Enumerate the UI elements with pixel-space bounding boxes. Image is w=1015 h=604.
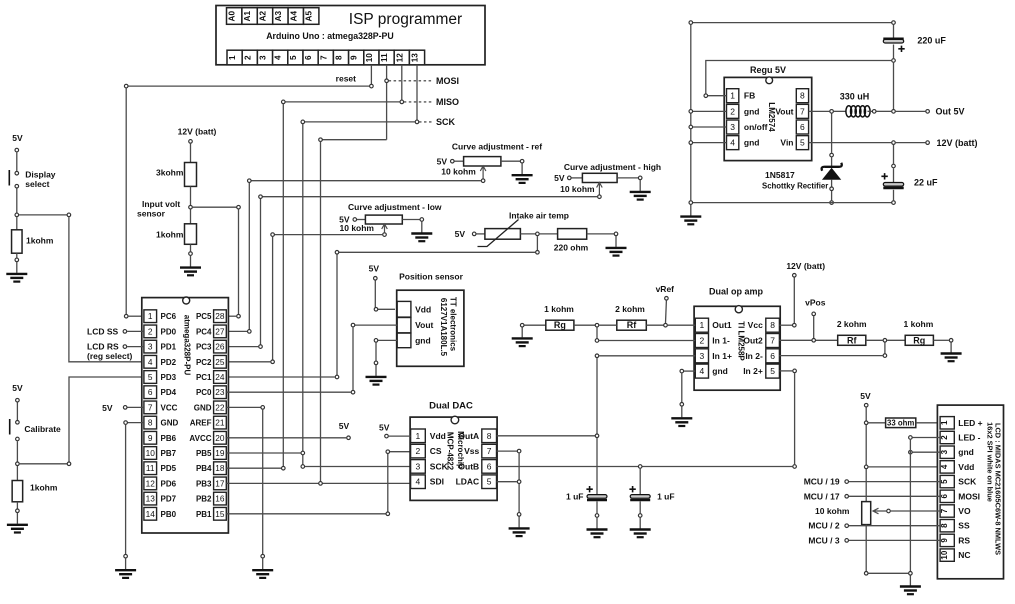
LCD contrast wiper arrow <box>873 508 886 514</box>
svg-text:MOSI: MOSI <box>436 76 459 86</box>
wire 5V to pin 7 VCC <box>127 406 143 408</box>
resistor 3kohm <box>185 163 197 187</box>
svg-text:10: 10 <box>940 550 949 559</box>
svg-text:5V: 5V <box>455 229 466 239</box>
svg-text:14: 14 <box>146 509 156 519</box>
node diode cathode <box>830 153 834 157</box>
wire intake junction down <box>536 236 538 252</box>
svg-text:1 kohm: 1 kohm <box>544 304 574 314</box>
svg-text:Rg: Rg <box>554 320 566 330</box>
svg-text:LED -: LED - <box>958 433 980 443</box>
wire pin 15 PB1 to DAC CS <box>226 513 387 515</box>
svg-text:10 kohm: 10 kohm <box>815 506 850 516</box>
svg-text:Vin: Vin <box>780 138 793 148</box>
svg-text:Schottky Rectifier: Schottky Rectifier <box>762 182 828 191</box>
svg-text:LDAC: LDAC <box>456 477 480 487</box>
U3 pin 2 In 1- <box>695 334 730 348</box>
svg-text:5: 5 <box>487 477 492 487</box>
svg-text:Position sensor: Position sensor <box>399 272 463 282</box>
ISP header pin 7 <box>318 50 333 65</box>
svg-text:220 uF: 220 uF <box>917 36 946 46</box>
node left rail pin2 <box>689 110 693 114</box>
wire into op amp In2- <box>779 355 882 357</box>
svg-text:RS: RS <box>958 535 970 545</box>
wire pin 18 PB4 to MISO net <box>226 467 281 469</box>
svg-text:1: 1 <box>148 311 153 321</box>
wire SCK into DAC pin 3 <box>305 466 411 468</box>
svg-text:on/off: on/off <box>744 122 768 132</box>
node 220uF bottom junction <box>892 59 896 63</box>
wire OutA node down to C3 <box>596 438 598 494</box>
svg-text:5V: 5V <box>339 421 350 431</box>
svg-text:5: 5 <box>770 366 775 376</box>
node MISO corner <box>282 100 286 104</box>
svg-text:MCU / 2: MCU / 2 <box>808 521 839 531</box>
svg-text:PD1: PD1 <box>161 343 177 352</box>
terminal 5V display-select <box>15 148 19 152</box>
svg-text:15: 15 <box>215 509 225 519</box>
svg-text:5V: 5V <box>437 157 448 167</box>
wire Vout to inductor <box>834 110 846 112</box>
wire low wiper to PC2 riser <box>273 234 383 236</box>
wire 220uF node up to cap <box>893 45 895 59</box>
wire reset vertical down to ATmega pin 1 <box>125 88 127 316</box>
node intake corner <box>536 251 540 255</box>
svg-text:PD0: PD0 <box>161 327 177 336</box>
ISP header pin 11 <box>379 50 394 65</box>
wire CS into DAC pin 2 <box>390 451 411 453</box>
node reset left corner <box>124 84 128 88</box>
wire 5V to calibrate switch <box>16 402 18 420</box>
capacitor C2 22 uF <box>881 173 903 188</box>
wire Vss/LDAC down to ground <box>518 484 520 512</box>
svg-text:20: 20 <box>215 433 225 443</box>
wire Vin junction down to C2 <box>893 145 895 164</box>
node SCK bottom corner <box>301 465 305 469</box>
wire LCD pin 2 LED- out <box>913 437 941 439</box>
svg-text:Rg: Rg <box>913 335 925 345</box>
svg-text:SCK: SCK <box>430 461 449 471</box>
svg-text:12V (batt): 12V (batt) <box>786 261 825 271</box>
U1 pin 15 PB1 <box>196 507 226 520</box>
svg-text:10: 10 <box>365 53 374 63</box>
svg-text:PB0: PB0 <box>161 510 177 519</box>
terminal 5V VCC <box>123 406 127 410</box>
ISP header pin 4 <box>273 50 288 65</box>
position sensor pin gnd <box>397 333 430 348</box>
U1 pin 11 PD5 <box>144 462 177 475</box>
terminal MCU / 2 <box>845 524 849 528</box>
svg-text:26: 26 <box>215 342 225 352</box>
svg-text:13: 13 <box>411 53 420 63</box>
svg-text:8: 8 <box>487 431 492 441</box>
svg-text:330 uH: 330 uH <box>840 92 870 102</box>
wire PC2 riser down <box>272 237 274 362</box>
IC U4 LM2574 body <box>724 77 812 161</box>
terminal 12V op amp <box>793 274 797 278</box>
U1 pin 22 GND <box>194 401 227 414</box>
U4 pin 1 FB <box>727 89 756 103</box>
node reset at pin 10 <box>370 84 374 88</box>
wire PC3 riser down <box>260 199 262 347</box>
node SCK at ATmega pin 19 <box>301 451 305 455</box>
svg-text:7: 7 <box>487 446 492 456</box>
svg-text:VO: VO <box>958 506 971 516</box>
node Vcc corner <box>793 323 797 327</box>
wire Rg1/Rf1 junction down to In1- <box>596 327 598 340</box>
svg-text:16x2 SPI white on blue: 16x2 SPI white on blue <box>985 422 994 502</box>
ISP header pin A0 <box>227 8 242 25</box>
wire Rf1 to vRef junction <box>646 324 665 326</box>
U1 pin 6 PD4 <box>144 386 177 399</box>
label LCD RS (reg select) <box>87 342 133 361</box>
wire junction to PD2 riser <box>19 214 69 216</box>
svg-text:Out 5V: Out 5V <box>936 107 965 117</box>
U1 pin 18 PB4 <box>196 462 226 475</box>
U4 pin 8 <box>796 89 808 103</box>
U2 pin 2 CS <box>411 444 442 458</box>
wire into ATmega pin 24 PC1 <box>226 376 334 378</box>
svg-text:19: 19 <box>215 448 225 458</box>
svg-text:8: 8 <box>800 91 805 101</box>
resistor 1kohm calibrate <box>12 481 23 502</box>
node C2 bottom rail <box>892 201 896 205</box>
wire 5V to DAC Vdd <box>389 435 411 437</box>
svg-text:7: 7 <box>800 106 805 116</box>
wire into ATmega pin 27 PC4 <box>226 330 247 332</box>
node vPos junction <box>812 339 816 343</box>
wire MCU/2 to LCD pin 8 SS <box>849 525 940 527</box>
U1 pin 23 PC0 <box>196 386 226 399</box>
ISP header pin A2 <box>257 8 272 25</box>
node pot bottom corner <box>864 572 868 576</box>
node GND corner <box>124 421 128 425</box>
LCD pin 6 MOSI <box>940 490 980 502</box>
U1 pin 16 PB2 <box>196 492 226 505</box>
capacitor C1 220 uF <box>883 39 904 52</box>
svg-text:1: 1 <box>730 91 735 101</box>
wire high wiper to PC3 riser <box>261 196 598 198</box>
node PC5 riser top <box>237 205 241 209</box>
ISP header pin 2 <box>242 50 257 65</box>
svg-text:4: 4 <box>730 138 735 148</box>
node C2 top <box>892 164 896 168</box>
svg-text:10 kohm: 10 kohm <box>441 167 476 177</box>
svg-text:Out1: Out1 <box>712 320 732 330</box>
terminal 5V LCD <box>864 403 868 407</box>
wire junction to 33 ohm resistor <box>868 422 885 424</box>
wire bottom link to LCD ground <box>868 572 908 574</box>
svg-text:4: 4 <box>940 464 949 469</box>
wire MOSI vertical down to SDI net <box>320 142 322 484</box>
svg-text:11: 11 <box>146 463 155 473</box>
U2 pin 3 SCK <box>411 460 449 474</box>
wire into ATmega pin 1 PC6 <box>128 315 144 317</box>
wire 5V to ref pot <box>455 160 464 162</box>
node at ATmega pin 25 <box>271 360 275 364</box>
ISP header pin 8 <box>333 50 348 65</box>
LCD pin 7 VO <box>940 505 971 517</box>
svg-text:PC6: PC6 <box>161 312 177 321</box>
wire SCK: ISP pin 13 down <box>416 65 418 122</box>
ISP header pin 3 <box>257 50 272 65</box>
svg-text:NC: NC <box>958 550 970 560</box>
node Rg1/Rf1 junction <box>595 323 599 327</box>
U1 pin 24 PC1 <box>196 371 226 384</box>
wire Rf2 to junction <box>866 339 883 341</box>
wire 5V to thermistor <box>476 233 485 235</box>
wire intake horizontal to PC1 riser <box>337 251 535 253</box>
node top rail left <box>689 21 693 25</box>
node position gnd corner <box>374 339 378 343</box>
svg-text:3: 3 <box>730 122 735 132</box>
wire into ATmega pin 23 PC0 <box>226 391 350 393</box>
node LCD ground junction <box>909 572 913 576</box>
ISP header pin 9 <box>349 50 364 65</box>
svg-text:5V: 5V <box>12 133 23 143</box>
node Vout junction <box>830 110 834 114</box>
U1 pin 28 PC5 <box>196 310 226 323</box>
terminal MCU / 17 <box>845 495 849 499</box>
wire SCK vertical down to DAC SCK <box>302 124 304 467</box>
potentiometer 10 kohm LCD contrast <box>862 502 871 525</box>
U3 pin 4 gnd <box>695 364 728 378</box>
svg-text:2: 2 <box>730 106 735 116</box>
U1 pin 9 PB6 <box>144 431 177 444</box>
wire In1+ down to OutA junction <box>596 358 598 434</box>
node OutB corner right <box>793 465 797 469</box>
IC LCD display body <box>937 405 1003 579</box>
svg-text:2: 2 <box>700 336 705 346</box>
node position sensor Vdd <box>374 308 378 312</box>
switch Display select <box>9 170 18 188</box>
svg-text:1 kohm: 1 kohm <box>904 319 934 329</box>
wire into op amp Vcc <box>779 324 792 326</box>
node MOSI at pin17 wire <box>319 482 323 486</box>
wire junction to 220 ohm <box>540 233 558 235</box>
svg-text:1N5817: 1N5817 <box>765 170 795 180</box>
svg-text:24: 24 <box>215 372 225 382</box>
wire LCD RS to pin 3 <box>127 346 144 348</box>
svg-text:5V: 5V <box>554 173 565 183</box>
svg-text:AVCC: AVCC <box>189 434 211 443</box>
label Display select <box>25 170 56 190</box>
svg-text:22 uF: 22 uF <box>914 178 938 188</box>
svg-text:25: 25 <box>215 357 225 367</box>
node GND22 corner <box>261 406 265 410</box>
U3 pin 1 Out1 <box>695 318 732 332</box>
wire MOSI horizontal jog <box>321 139 387 141</box>
svg-text:atmega328P-PU: atmega328P-PU <box>183 315 192 376</box>
LCD pin 5 SCK <box>940 475 977 487</box>
node at ATmega pin 26 <box>259 345 263 349</box>
svg-text:AREF: AREF <box>190 419 212 428</box>
svg-text:23: 23 <box>215 387 225 397</box>
ground U1 pin8 <box>115 554 136 578</box>
svg-text:Rf: Rf <box>627 320 637 330</box>
svg-text:2: 2 <box>416 446 421 456</box>
ground DAC <box>509 513 530 536</box>
terminal 12V batt regulator <box>926 141 930 145</box>
terminal vPos <box>812 312 816 316</box>
wire to Out5V junction <box>876 110 891 112</box>
U1 pin 10 PB7 <box>144 447 177 460</box>
wire position sensor gnd out <box>376 339 397 341</box>
node PC4 riser top <box>248 179 252 183</box>
label Input volt sensor <box>137 199 180 219</box>
U4 pin 5 <box>796 136 808 150</box>
node calibrate junction <box>16 462 20 466</box>
svg-text:PB4: PB4 <box>196 464 212 473</box>
wire 220 ohm to ground <box>587 233 616 235</box>
IC U3 dual op amp body <box>694 306 780 391</box>
node LDAC corner <box>517 480 521 484</box>
wire DAC Vss out <box>497 450 520 452</box>
ground display-select <box>6 258 27 282</box>
svg-text:MISO: MISO <box>436 97 459 107</box>
terminal 5V ref pot <box>451 159 455 163</box>
node In2- corner <box>883 354 887 358</box>
wire resistor to ground <box>16 253 18 258</box>
LCD pin 3 gnd <box>940 446 974 458</box>
svg-text:Out2: Out2 <box>743 336 763 346</box>
svg-text:OutA: OutA <box>458 431 479 441</box>
svg-text:SDI: SDI <box>430 477 444 487</box>
wire rail to U4 pin 3 <box>693 126 727 128</box>
svg-text:PC0: PC0 <box>196 388 212 397</box>
wire vRef junction to op amp Out1 <box>668 324 696 326</box>
wire 33 ohm to LCD pin 1 <box>916 422 940 424</box>
U3 pin 3 In 1+ <box>695 349 732 363</box>
wire PC4 riser down <box>248 183 250 332</box>
ground C4 <box>630 514 651 538</box>
ISP header pin A4 <box>288 8 303 25</box>
svg-text:5: 5 <box>148 372 153 382</box>
svg-text:17: 17 <box>215 478 225 488</box>
svg-text:5: 5 <box>940 479 949 484</box>
svg-text:reset: reset <box>336 74 356 84</box>
wire MISO vertical down to ATmega pin 18 <box>282 104 284 468</box>
wire 5V down to Vdd <box>375 281 395 310</box>
svg-text:VCC: VCC <box>161 403 178 412</box>
svg-text:5V: 5V <box>102 403 113 413</box>
svg-text:PC3: PC3 <box>196 343 212 352</box>
svg-text:1 uF: 1 uF <box>566 492 583 502</box>
node input volt sensor junction <box>189 205 193 209</box>
U3 pin 7 Out2 <box>743 334 779 348</box>
U2 pin 1 Vdd <box>411 429 446 443</box>
LCD pin 8 SS <box>940 520 970 532</box>
svg-text:1kohm: 1kohm <box>26 236 54 246</box>
svg-text:2 kohm: 2 kohm <box>615 304 645 314</box>
svg-text:1: 1 <box>228 55 237 60</box>
svg-text:18: 18 <box>215 463 225 473</box>
wire PD3 riser up and into ATmega pin 5 <box>69 377 144 462</box>
wire op amp gnd pin 4 out <box>684 370 695 372</box>
node vRef junction <box>664 323 668 327</box>
svg-text:PB1: PB1 <box>196 510 212 519</box>
terminal LCD SS <box>123 330 127 334</box>
node PC1 riser top <box>335 251 339 255</box>
svg-text:PD5: PD5 <box>161 464 177 473</box>
wire into ATmega pin 25 PC2 <box>226 361 270 363</box>
svg-text:1: 1 <box>700 320 705 330</box>
U1 pin 19 PB5 <box>196 447 226 460</box>
node LCD Vdd junction <box>864 465 868 469</box>
wire top ground rail <box>691 22 894 24</box>
svg-text:In 2+: In 2+ <box>743 366 763 376</box>
svg-text:LCD SS: LCD SS <box>87 326 119 336</box>
svg-text:MCU / 19: MCU / 19 <box>804 477 840 487</box>
terminal MCU / 19 <box>845 480 849 484</box>
U2 pin 4 SDI <box>411 475 444 489</box>
wire CS riser <box>387 452 389 512</box>
svg-text:A1: A1 <box>243 11 252 22</box>
wire into op amp In1- <box>599 340 695 342</box>
svg-text:2: 2 <box>148 326 153 336</box>
svg-text:MCU / 17: MCU / 17 <box>804 491 840 501</box>
wire Rg2 to ground <box>933 339 949 341</box>
wire junction down to resistor <box>16 466 18 481</box>
wire position gnd down <box>375 343 377 361</box>
U1 pin 14 PB0 <box>144 507 177 520</box>
LCD pin 9 RS <box>940 534 970 546</box>
svg-text:GND: GND <box>194 403 212 412</box>
switch Calibrate <box>10 419 19 441</box>
svg-text:Input volt: Input volt <box>142 199 180 209</box>
terminal Out 5V <box>926 110 930 114</box>
svg-text:12V (batt): 12V (batt) <box>178 127 217 137</box>
ground LCD <box>900 587 921 595</box>
wire 1kohm to ground <box>190 244 192 251</box>
ISP header pin 12 <box>394 50 409 65</box>
wire switch to junction <box>16 188 18 215</box>
svg-text:Regu 5V: Regu 5V <box>750 65 786 75</box>
node inductor out <box>872 110 876 114</box>
svg-text:Curve adjustment - ref: Curve adjustment - ref <box>452 142 542 152</box>
svg-text:3: 3 <box>940 449 949 454</box>
svg-text:vPos: vPos <box>805 298 826 308</box>
LCD pin 2 LED - <box>940 431 981 443</box>
node SCK at ISP pin 13 <box>415 120 419 124</box>
U1 pin 13 PD7 <box>144 492 177 505</box>
wire 12V to 3kohm <box>190 144 192 163</box>
svg-text:PB7: PB7 <box>161 449 177 458</box>
terminal MCU / 3 <box>845 539 849 543</box>
svg-text:gnd: gnd <box>744 106 760 116</box>
svg-text:21: 21 <box>215 418 225 428</box>
node OutB cap junction <box>638 465 642 469</box>
svg-text:Calibrate: Calibrate <box>24 424 61 434</box>
potentiometer 10 kohm curve-ref <box>464 157 501 179</box>
IC U2 Dual DAC body <box>410 416 497 500</box>
wire junction to Rf1 <box>599 324 617 326</box>
svg-text:SCK: SCK <box>436 117 456 127</box>
inductor L1 330 uH <box>846 106 870 117</box>
svg-text:Dual op amp: Dual op amp <box>709 287 764 297</box>
wire junction to Rg2 <box>887 339 905 341</box>
svg-text:SCK: SCK <box>958 477 977 487</box>
wire DAC LDAC out <box>497 481 517 483</box>
svg-text:6: 6 <box>304 55 313 60</box>
node display-select junction <box>15 213 19 217</box>
svg-text:Curve adjustment - low: Curve adjustment - low <box>348 202 442 212</box>
node ref pot wiper <box>481 179 485 183</box>
svg-text:vRef: vRef <box>656 284 675 294</box>
svg-text:1: 1 <box>416 431 421 441</box>
svg-text:In 2-: In 2- <box>745 351 763 361</box>
svg-text:LED +: LED + <box>958 418 982 428</box>
